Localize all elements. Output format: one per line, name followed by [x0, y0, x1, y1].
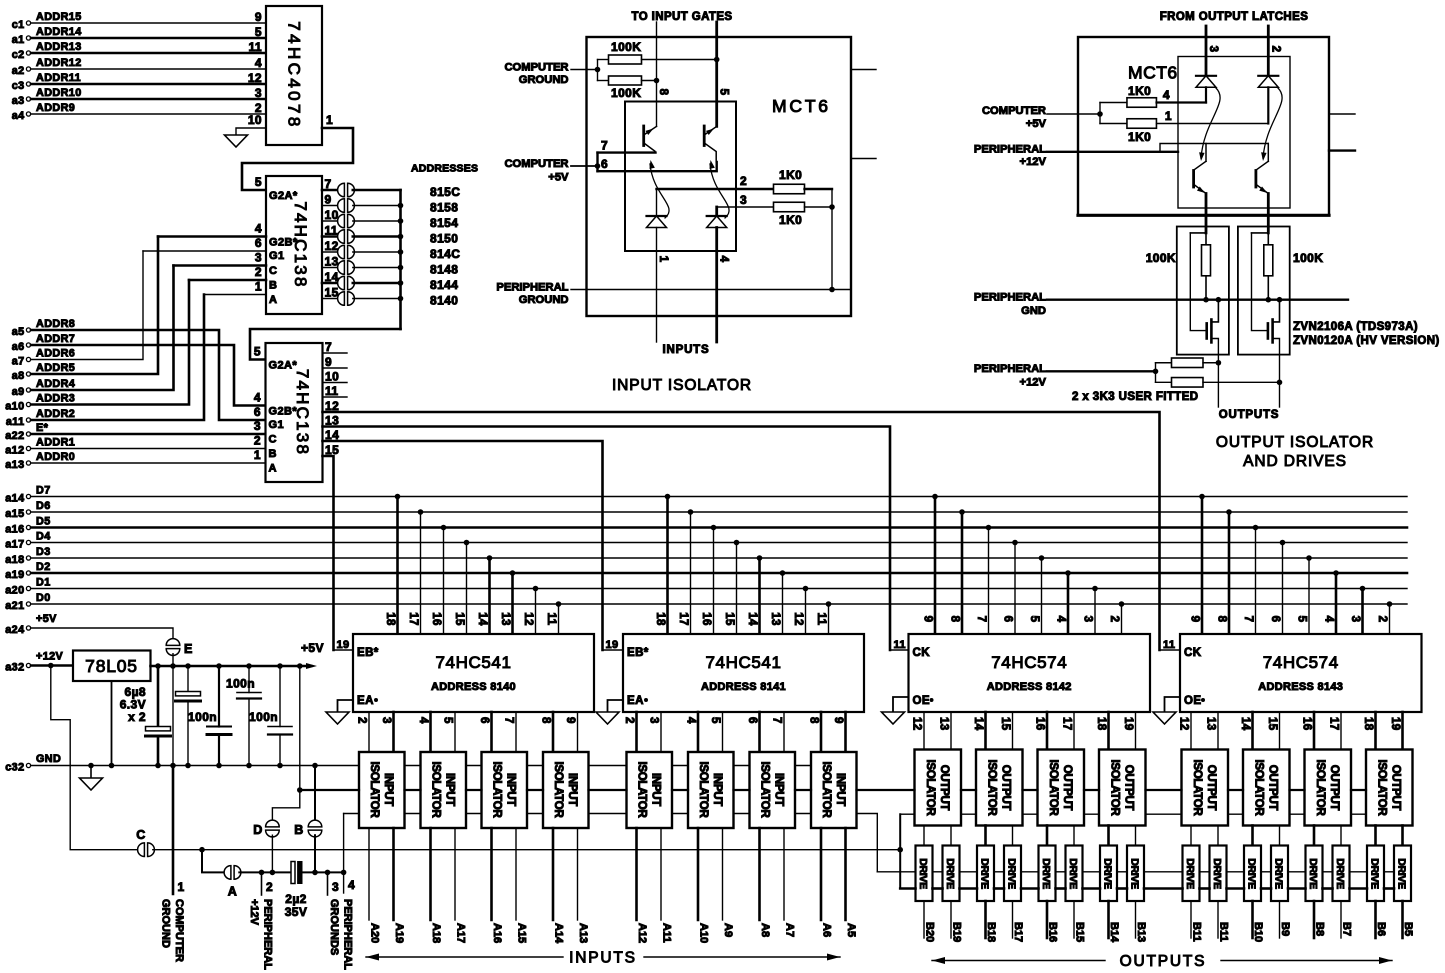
U3 bottom pin 8 wire — [552, 712, 555, 752]
wire isolator output pull node — [831, 189, 833, 290]
svg-text:2: 2 — [255, 265, 262, 279]
wire address select to U2b G2A* — [250, 329, 401, 360]
svg-text:MCT6: MCT6 — [772, 96, 831, 116]
svg-text:A6: A6 — [821, 923, 833, 937]
svg-text:D0: D0 — [36, 592, 51, 604]
svg-text:B11: B11 — [1218, 922, 1230, 942]
drive block B17 — [1004, 846, 1021, 902]
svg-text:CK: CK — [1184, 647, 1202, 659]
input line A5 — [844, 828, 847, 920]
data tap D4 to U5 pin 6 — [1012, 540, 1018, 546]
svg-text:7: 7 — [1242, 616, 1254, 623]
data tap D1 to U3 pin 12 — [533, 586, 539, 592]
svg-text:2: 2 — [266, 880, 273, 894]
output line B8 — [1313, 901, 1316, 938]
svg-text:OUTPUT: OUTPUT — [1266, 765, 1278, 811]
svg-text:815C: 815C — [430, 185, 460, 199]
svg-text:a6: a6 — [12, 341, 25, 353]
svg-text:3: 3 — [1207, 46, 1219, 53]
svg-text:a1: a1 — [12, 34, 25, 46]
svg-text:C: C — [269, 265, 277, 277]
svg-text:4: 4 — [685, 717, 697, 724]
svg-text:10: 10 — [325, 370, 339, 384]
computer ground rail through input isolators — [31, 765, 359, 767]
svg-text:A17: A17 — [455, 923, 467, 943]
svg-text:ISOLATOR: ISOLATOR — [429, 762, 441, 819]
U3 bottom pin 9 wire — [577, 712, 579, 752]
svg-text:13: 13 — [499, 612, 511, 626]
input line A8 — [758, 828, 761, 920]
svg-text:100n: 100n — [249, 710, 278, 724]
svg-text:DRIVE: DRIVE — [1102, 858, 1114, 889]
drive block B19 — [943, 846, 960, 902]
svg-text:INPUT: INPUT — [834, 773, 846, 806]
output isolator block 5 — [1182, 750, 1229, 826]
input line A10 — [697, 828, 700, 920]
svg-text:10: 10 — [325, 208, 339, 222]
opto light arrow channel 2 — [710, 164, 729, 218]
svg-text:2: 2 — [1376, 616, 1388, 623]
resistor R8 100K pull-down (channel 2) — [1252, 232, 1269, 234]
data tap D7 to U3 pin 18 — [395, 494, 401, 500]
wire ADDR4 riser to U2 C — [31, 266, 174, 391]
svg-text:A19: A19 — [393, 923, 405, 943]
connector stub 1 COMPUTER GROUND — [172, 766, 175, 895]
input isolator block 4 — [543, 752, 589, 828]
svg-text:COMPUTER: COMPUTER — [173, 899, 185, 962]
svg-text:CK: CK — [913, 647, 931, 659]
opto light arrow channel 3 — [1201, 88, 1220, 158]
svg-text:5: 5 — [442, 717, 454, 724]
svg-text:G2A*: G2A* — [269, 360, 298, 372]
svg-text:x 2: x 2 — [128, 710, 146, 724]
wire output isolator 7 to drive 7 — [1107, 826, 1110, 846]
wire ADDR12 to U1 pin 4 — [31, 68, 266, 70]
svg-text:+12V: +12V — [248, 899, 260, 926]
svg-text:+5V: +5V — [1026, 118, 1047, 130]
svg-text:OE: OE — [1184, 695, 1201, 707]
svg-text:100n: 100n — [226, 677, 255, 691]
output line B16 — [1046, 901, 1049, 938]
svg-text:3: 3 — [1349, 616, 1361, 623]
svg-text:ISOLATOR: ISOLATOR — [985, 760, 997, 817]
output line B15 — [1073, 901, 1075, 938]
+5V output rail of U7 — [151, 665, 312, 668]
wire ADDR1 to U2b B — [31, 448, 266, 450]
data tap D6 to U6 pin 8 — [1226, 509, 1232, 515]
svg-text:14: 14 — [746, 612, 758, 626]
svg-text:1K0: 1K0 — [779, 213, 802, 227]
wire output isolator 2 to drive 2 — [950, 826, 952, 846]
node joining +12V feed to output rails — [899, 814, 901, 888]
svg-text:a10: a10 — [5, 401, 24, 413]
svg-text:8: 8 — [1216, 616, 1228, 623]
svg-text:A7: A7 — [784, 923, 796, 937]
svg-text:a21: a21 — [5, 600, 24, 612]
link D with +5V feed — [272, 790, 299, 822]
svg-text:DRIVE: DRIVE — [1273, 858, 1285, 889]
svg-text:4: 4 — [255, 56, 262, 70]
emitter wire channel 2 into drive — [1267, 194, 1270, 233]
svg-text:13: 13 — [938, 717, 950, 731]
svg-text:a8: a8 — [12, 370, 25, 382]
svg-text:3: 3 — [380, 717, 392, 724]
svg-text:ISOLATOR: ISOLATOR — [697, 762, 709, 819]
OUTPUTS direction arrow — [932, 960, 1105, 962]
svg-text:ADDRESS 8140: ADDRESS 8140 — [431, 681, 516, 693]
svg-text:a7: a7 — [12, 356, 25, 368]
svg-text:INPUT: INPUT — [504, 773, 516, 806]
IC U1 74HC4078 8-input NOR — [266, 6, 322, 145]
drive rail (upper) through drive blocks — [877, 871, 915, 873]
wire output isolator 6 to drive 6 — [1073, 826, 1075, 846]
U6 bottom pin 16 wire — [1313, 712, 1316, 750]
input line A11 — [660, 828, 662, 920]
U3 bottom pin 6 wire — [490, 712, 493, 752]
svg-text:a4: a4 — [12, 110, 25, 122]
drive block B5 — [1394, 846, 1411, 902]
svg-text:18: 18 — [384, 612, 396, 626]
wire peripheral +12V to 3K3 resistors — [1047, 370, 1156, 372]
U4 bottom pin 2 wire — [635, 712, 638, 752]
svg-text:A18: A18 — [430, 923, 442, 943]
svg-text:ADDR2: ADDR2 — [36, 408, 75, 420]
svg-text:ADDR0: ADDR0 — [36, 451, 75, 463]
svg-text:DRIVE: DRIVE — [944, 858, 956, 889]
svg-text:ADDR14: ADDR14 — [36, 26, 82, 38]
U4 bottom pin 7 wire — [783, 712, 785, 752]
phototransistor Q3 — [1192, 171, 1195, 188]
svg-text:G1: G1 — [269, 419, 284, 431]
svg-text:OUTPUT: OUTPUT — [1061, 765, 1073, 811]
svg-text:ISOLATOR: ISOLATOR — [1191, 760, 1203, 817]
svg-text:6: 6 — [746, 717, 758, 724]
svg-text:9: 9 — [325, 355, 332, 369]
svg-text:ADDRESS 8141: ADDRESS 8141 — [701, 681, 786, 693]
drive block B11 — [1210, 846, 1227, 902]
data tap D5 to U6 pin 7 — [1253, 525, 1259, 531]
svg-text:2: 2 — [740, 174, 747, 188]
U3 bottom pin 5 wire — [454, 712, 456, 752]
svg-text:74HC4078: 74HC4078 — [285, 21, 304, 129]
drive block B11 — [1183, 846, 1200, 902]
wire ADDR13 to U1 pin 11 — [31, 52, 266, 55]
svg-text:ISOLATOR: ISOLATOR — [1047, 760, 1059, 817]
svg-text:11: 11 — [894, 639, 906, 651]
svg-text:ISOLATOR: ISOLATOR — [1314, 760, 1326, 817]
resistor R5 1K0 — [1099, 103, 1101, 124]
LED D4 (channel 2) — [1258, 75, 1278, 77]
svg-text:A13: A13 — [577, 923, 589, 943]
capacitor C3 100n — [218, 666, 220, 727]
svg-text:1: 1 — [178, 880, 185, 894]
drive block B18 — [977, 846, 994, 902]
svg-text:DRIVE: DRIVE — [1129, 858, 1141, 889]
svg-text:D6: D6 — [36, 500, 51, 512]
output line B5 — [1401, 901, 1404, 938]
svg-text:c1: c1 — [12, 19, 25, 31]
U5 bottom pin 15 wire — [1012, 712, 1014, 750]
data tap D0 to U5 pin 2 — [1119, 601, 1125, 607]
input line A13 — [577, 828, 579, 920]
svg-text:2: 2 — [1270, 46, 1282, 53]
data tap D7 to U6 pin 9 — [1199, 494, 1205, 500]
svg-text:c32: c32 — [5, 762, 24, 774]
svg-text:ISOLATOR: ISOLATOR — [1108, 760, 1120, 817]
wire output isolator 13 to drive 13 — [1313, 826, 1316, 846]
peripheral +12V row (lower) — [239, 871, 291, 873]
svg-text:A: A — [269, 463, 277, 475]
svg-text:a2: a2 — [12, 65, 25, 77]
svg-text:4: 4 — [718, 256, 730, 263]
svg-text:8: 8 — [540, 717, 552, 724]
svg-text:D3: D3 — [36, 546, 51, 558]
svg-text:ADDRESS 8142: ADDRESS 8142 — [987, 681, 1072, 693]
svg-text:ADDR9: ADDR9 — [36, 102, 75, 114]
ground symbol at U3 EA* — [326, 712, 349, 724]
svg-text:3: 3 — [254, 419, 261, 433]
svg-text:16: 16 — [430, 612, 442, 626]
input isolator block 6 — [688, 752, 734, 828]
svg-text:PERIPHERAL: PERIPHERAL — [974, 292, 1046, 304]
wire ADDR3 riser to U2 B — [31, 280, 189, 405]
svg-text:D: D — [253, 823, 262, 837]
ground symbol at U4 EA* — [596, 712, 619, 724]
connector stub 4 / peripheral ground drop — [343, 814, 345, 894]
svg-text:a18: a18 — [5, 554, 24, 566]
svg-text:EB*: EB* — [357, 647, 379, 659]
resistor R1 100K — [598, 59, 609, 61]
svg-text:13: 13 — [769, 612, 781, 626]
svg-text:OUTPUTS: OUTPUTS — [1120, 953, 1207, 970]
output isolator block 7 — [1305, 750, 1352, 826]
U6 bottom pin 15 wire — [1279, 712, 1281, 750]
svg-text:A: A — [228, 885, 237, 899]
svg-text:14: 14 — [972, 717, 984, 731]
wire from output latch channel 1 — [1205, 26, 1208, 76]
svg-text:11: 11 — [325, 384, 339, 398]
ground symbol at U1 pin 10 — [225, 135, 248, 147]
output line B20 — [923, 901, 925, 938]
svg-text:18: 18 — [1362, 717, 1374, 731]
svg-text:11: 11 — [545, 613, 557, 626]
U3 bottom pin 4 wire — [429, 712, 432, 752]
svg-text:PERIPHERAL: PERIPHERAL — [496, 282, 568, 294]
svg-text:a13: a13 — [5, 459, 24, 471]
data tap D0 to U4 pin 11 — [826, 601, 832, 607]
resistor R2 100K — [597, 60, 599, 81]
svg-text:7: 7 — [325, 340, 332, 354]
svg-text:COMPUTER: COMPUTER — [504, 158, 568, 170]
svg-text:4: 4 — [1163, 88, 1170, 102]
output isolator block 8 — [1366, 750, 1413, 826]
data tap D5 to U5 pin 7 — [986, 525, 992, 531]
svg-text:ADDR15: ADDR15 — [36, 11, 82, 23]
svg-text:19: 19 — [606, 639, 619, 651]
U5 bottom pin 18 wire — [1107, 712, 1110, 750]
wire ADDR15 to U1 pin 9 — [31, 22, 266, 24]
svg-text:D5: D5 — [36, 516, 51, 528]
U4 bottom pin 6 wire — [758, 712, 761, 752]
INPUTS direction arrow — [366, 956, 563, 958]
drive block B14 — [1100, 846, 1117, 902]
phototransistor Q1 — [642, 126, 645, 146]
svg-text:DRIVE: DRIVE — [1369, 858, 1381, 889]
svg-text:1: 1 — [254, 448, 261, 462]
wire ADDR11 to U1 pin 12 — [31, 83, 266, 86]
data tap D2 to U6 pin 4 — [1333, 570, 1339, 576]
connector stub 2 PERIPHERAL +12V — [261, 872, 263, 895]
wire output isolator 9 to drive 9 — [1190, 826, 1192, 846]
link E — [166, 639, 180, 646]
svg-text:GROUNDS: GROUNDS — [328, 899, 340, 955]
input line A20 — [368, 828, 370, 920]
svg-text:12: 12 — [522, 612, 534, 626]
svg-text:ADDR13: ADDR13 — [36, 41, 82, 53]
U4 bottom pin 3 wire — [660, 712, 662, 752]
svg-text:B5: B5 — [1402, 922, 1414, 936]
U6 bottom pin 12 wire — [1190, 712, 1192, 750]
U1 pin 10 wire — [236, 128, 266, 135]
output line B6 — [1374, 901, 1377, 938]
svg-text:a24: a24 — [5, 624, 24, 636]
svg-text:D1: D1 — [36, 577, 51, 589]
svg-text:a5: a5 — [12, 326, 25, 338]
drive block B9 — [1271, 846, 1288, 902]
svg-text:100K: 100K — [611, 40, 641, 54]
data tap D2 to U5 pin 4 — [1065, 570, 1071, 576]
svg-text:A15: A15 — [516, 923, 528, 943]
computer +5V rail through isolators — [300, 789, 359, 791]
opto light arrow channel 1 — [650, 164, 669, 218]
svg-text:2: 2 — [356, 717, 368, 724]
drive block B8 — [1306, 846, 1323, 902]
wire computer +5V feed — [1047, 113, 1100, 115]
capacitor C4 100n — [248, 666, 250, 693]
capacitor C1 6u8 electrolytic — [157, 666, 160, 727]
svg-text:8144: 8144 — [430, 278, 458, 292]
drive block B6 — [1367, 846, 1384, 902]
svg-text:9: 9 — [832, 717, 844, 724]
svg-text:4: 4 — [254, 391, 261, 405]
wire U2 G1 to ADDR6 riser — [143, 250, 266, 252]
output line B13 — [1135, 901, 1137, 938]
svg-text:OE: OE — [913, 695, 930, 707]
svg-text:10: 10 — [248, 113, 262, 127]
drive block B10 — [1244, 846, 1261, 902]
drive block B13 — [1127, 846, 1144, 902]
svg-text:E: E — [184, 642, 193, 656]
svg-text:5: 5 — [254, 345, 261, 359]
data tap D0 to U3 pin 11 — [556, 601, 562, 607]
svg-text:5: 5 — [718, 89, 730, 96]
peripheral ground wire — [571, 289, 851, 291]
svg-text:PERIPHERAL: PERIPHERAL — [262, 899, 274, 970]
data tap D7 to U5 pin 9 — [932, 494, 938, 500]
svg-text:7: 7 — [503, 717, 515, 724]
svg-text:8: 8 — [808, 717, 820, 724]
svg-text:INPUT ISOLATOR: INPUT ISOLATOR — [612, 377, 752, 394]
resistor R6 1K0 — [1100, 123, 1127, 125]
svg-text:DRIVE: DRIVE — [1184, 858, 1196, 889]
wire output isolator 14 to drive 14 — [1340, 826, 1342, 846]
input isolator block 7 — [750, 752, 796, 828]
svg-text:4: 4 — [1055, 616, 1067, 623]
output line B9 — [1279, 901, 1281, 938]
svg-text:100K: 100K — [611, 86, 641, 100]
ground symbol at U5 OE* — [882, 712, 905, 724]
svg-text:G1: G1 — [269, 250, 284, 262]
data tap D1 to U6 pin 3 — [1360, 586, 1366, 592]
peripheral GND rail — [1047, 299, 1348, 301]
svg-text:4: 4 — [255, 222, 262, 236]
svg-text:ISOLATOR: ISOLATOR — [758, 762, 770, 819]
wire ADDR0 to U2b A — [31, 462, 266, 464]
wire U2 G2B* to ADDR5 riser — [158, 235, 266, 238]
data tap D3 to U3 pin 14 — [487, 555, 493, 561]
svg-text:B18: B18 — [985, 922, 997, 942]
IC U2b 74HC138 decoder (low) — [266, 343, 323, 482]
svg-text:12: 12 — [911, 717, 923, 731]
output line B10 — [1251, 901, 1254, 938]
svg-text:a9: a9 — [12, 386, 25, 398]
link A — [224, 866, 231, 880]
output line B11 — [1217, 901, 1219, 938]
svg-text:C: C — [269, 434, 277, 446]
wire output isolator 8 to drive 8 — [1135, 826, 1137, 846]
svg-text:74HC541: 74HC541 — [705, 653, 781, 672]
wire to input gate (channel 2) — [715, 22, 718, 126]
svg-text:8150: 8150 — [430, 232, 458, 246]
U4 bottom pin 8 wire — [820, 712, 823, 752]
input isolator block 5 — [627, 752, 673, 828]
svg-text:INPUT: INPUT — [382, 773, 394, 806]
svg-text:2: 2 — [254, 434, 261, 448]
svg-text:ISOLATOR: ISOLATOR — [820, 762, 832, 819]
svg-text:ISOLATOR: ISOLATOR — [635, 762, 647, 819]
wire drop to peripheral +12V row — [202, 850, 226, 873]
drive block box (channel 1) — [1177, 227, 1229, 355]
input isolator outer box — [587, 37, 852, 316]
svg-text:4: 4 — [348, 878, 355, 892]
svg-text:GROUND: GROUND — [519, 294, 569, 306]
LED D1 (channel 1) — [656, 189, 658, 216]
svg-text:OUTPUTS: OUTPUTS — [1219, 409, 1280, 421]
svg-text:18: 18 — [1095, 717, 1107, 731]
wire output isolator 11 to drive 11 — [1251, 826, 1254, 846]
IC U5 74HC574 latch ADDRESS 8142 — [909, 634, 1151, 712]
resistor R9 3K3 user fitted — [1156, 362, 1172, 364]
right edge stubs of output isolator — [1329, 113, 1355, 115]
svg-text:DRIVE: DRIVE — [1307, 858, 1319, 889]
drive rail (lower, +12V) through drive blocks — [900, 887, 915, 890]
capacitor C2 6u8 electrolytic — [187, 666, 189, 692]
U6 bottom pin 14 wire — [1251, 712, 1254, 750]
U3 bottom pin 3 wire — [392, 712, 395, 752]
svg-text:a17: a17 — [5, 539, 24, 551]
U3 bottom pin 7 wire — [515, 712, 517, 752]
wire E* to U2b C — [31, 433, 266, 436]
svg-text:9: 9 — [325, 193, 332, 207]
emitter wire channel 1 into drive — [1205, 194, 1208, 233]
svg-text:D7: D7 — [36, 485, 51, 497]
svg-text:ISOLATOR: ISOLATOR — [552, 762, 564, 819]
svg-text:9: 9 — [922, 616, 934, 623]
right edge stubs of input isolator — [851, 69, 876, 71]
svg-text:16: 16 — [1034, 717, 1046, 731]
svg-text:19: 19 — [337, 639, 350, 651]
svg-text:ISOLATOR: ISOLATOR — [1375, 760, 1387, 817]
